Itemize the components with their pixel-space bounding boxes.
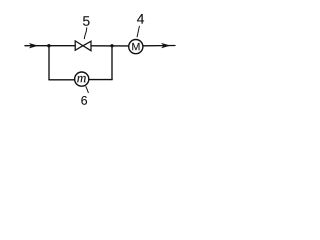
motor M4 letter M (132, 43, 139, 50)
meter m6 letter m (77, 76, 86, 82)
leader line for label 5 (84, 28, 87, 39)
label 6 (81, 96, 87, 105)
wire main line middle segment (91, 45, 129, 47)
wire feedback loop bottom right segment (89, 79, 112, 81)
wire feedback loop right vertical (111, 46, 113, 80)
valve V5 body (75, 41, 91, 51)
label 5 (83, 16, 90, 26)
label 4 (137, 14, 144, 24)
wire main line right segment (143, 45, 175, 47)
meter m6 circle (75, 72, 89, 86)
motor M4 circle (129, 40, 143, 54)
arrow input flow left (30, 44, 37, 48)
wire feedback loop left vertical (48, 46, 50, 80)
leader line for label 6 (86, 87, 88, 93)
leader line for label 4 (137, 26, 139, 37)
wire feedback loop bottom left segment (49, 79, 75, 81)
arrow output flow right (162, 44, 169, 48)
node junction right (110, 44, 113, 47)
node junction left (47, 44, 50, 47)
wire main line left segment (25, 45, 75, 47)
